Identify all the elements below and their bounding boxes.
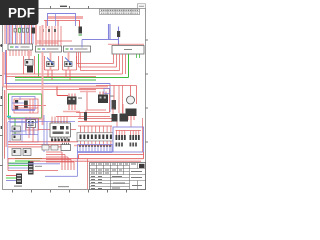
wire red left margin vertical [4, 90, 6, 159]
module m4 [12, 134, 21, 140]
small boxes above fan [42, 145, 49, 150]
wire red right edge vertical [142, 118, 144, 152]
sheet border [3, 9, 146, 190]
text mark bottom center [58, 186, 69, 187]
wire green bus [15, 54, 129, 78]
wire red long bottom [8, 158, 144, 160]
border zone ticks bottom [13, 190, 127, 193]
terminal strip XT1 [77, 133, 113, 142]
ECU box outline blue [12, 97, 35, 110]
wire blue into X4 [6, 180, 16, 182]
fuse F1 [18, 28, 20, 32]
module m3 [12, 126, 21, 132]
border zone ticks right [146, 40, 149, 142]
red stubs to groups [116, 131, 138, 136]
wire red fan verticals [62, 152, 74, 170]
control unit A4 [112, 46, 144, 55]
wire cyan mark [7, 116, 11, 118]
wire red drops [119, 86, 123, 114]
connector X6 mid [84, 112, 87, 121]
relay K1 label [78, 98, 82, 99]
module m2 [15, 106, 18, 110]
wire harness red/blue verticals [5, 25, 32, 44]
terminal box T1 [12, 149, 21, 156]
wire pink left margin vertical [5, 90, 7, 147]
module outline red [26, 118, 39, 130]
XT1 red stubs below [81, 141, 111, 146]
pdf badge [0, 0, 39, 25]
wire green vertical left [38, 54, 40, 78]
blue pin row tips [80, 145, 110, 147]
control unit A1 [8, 44, 33, 50]
connector group G2 pins [130, 135, 132, 140]
wire red fan bus 4 [4, 52, 123, 74]
border zone ticks top [51, 6, 89, 9]
svg-text:PDF: PDF [8, 6, 35, 21]
wire blue bus to right unit [82, 24, 119, 45]
sensor B1 [112, 100, 117, 110]
wire blue under row [78, 151, 113, 153]
wire red fan bus 1 [77, 52, 114, 64]
zone letter marks [1, 44, 2, 47]
connector X3 label [35, 166, 42, 167]
wire red fan bus 5 [6, 54, 126, 77]
wire red header inside box [116, 130, 142, 132]
wire blue vertical [44, 115, 47, 152]
wire blue below cluster [8, 121, 75, 123]
wire green bus 2 [15, 79, 96, 81]
wire red right of stack [34, 170, 59, 172]
wire red bus low [7, 50, 97, 90]
fuse F2 [22, 28, 24, 32]
connector box outline blue [113, 127, 144, 152]
wire red top feed [44, 20, 80, 22]
wire harness blue verticals [7, 25, 34, 44]
wire red into X4 [6, 175, 16, 177]
module outline blue [10, 119, 38, 143]
wire red hor above stubs [78, 125, 112, 127]
wire red loop bottom [79, 152, 144, 159]
connector X5 [24, 101, 28, 109]
switch S2 arrow [65, 58, 72, 65]
pins second row [116, 143, 118, 147]
page background [0, 0, 149, 198]
connector stack X3 [28, 162, 34, 175]
wire red feeds above strip [78, 110, 112, 122]
connector stack X4 [16, 174, 22, 185]
wire blue left margin vertical [7, 122, 9, 164]
pump unit [126, 109, 137, 117]
wire red loop K2 [76, 89, 110, 113]
border zone ticks left [0, 46, 3, 166]
control unit A3 [64, 46, 91, 52]
wire red long bottom 2 [30, 160, 141, 162]
switch S2 [65, 62, 73, 67]
wire red inner [29, 127, 33, 142]
wire red mid link [38, 129, 76, 131]
wire red feed [96, 86, 137, 105]
ECU box outline red [14, 99, 38, 113]
wire red horizontal junction [37, 41, 72, 43]
switch S3 left [24, 56, 35, 74]
motor M1 [127, 96, 135, 104]
switch S1 [47, 62, 55, 67]
component D1 [112, 114, 118, 122]
wire red drop left [45, 21, 47, 29]
wire pink lower [8, 146, 62, 148]
wire pink vertical band right of cluster [42, 52, 44, 125]
wire red under A4 [108, 43, 144, 45]
wire blue bus [5, 50, 111, 112]
wire green stubs below A4 [137, 54, 140, 58]
wire green bright pair [15, 158, 42, 160]
wire pink bus [3, 52, 108, 87]
relay K2 label [110, 96, 114, 97]
XT1 pins [80, 135, 82, 140]
title block logo [139, 164, 145, 168]
blue pin row [80, 147, 110, 153]
wire red feeds [113, 104, 131, 127]
relay K2 [98, 95, 108, 104]
wire green into X3 [8, 163, 28, 166]
control unit A2 [36, 46, 62, 52]
top note text [60, 6, 67, 7]
wire red fan bus 2 [79, 52, 117, 67]
wire green into X4 [6, 177, 16, 179]
wire pink S2 [68, 52, 70, 70]
fuse F4 [14, 29, 16, 33]
node label box blue [104, 89, 110, 94]
wire red stubs below A1 [10, 50, 31, 56]
wire pink k2 [80, 91, 96, 93]
component D2 [120, 114, 129, 122]
wire pink thick verticals [36, 25, 43, 46]
wire red verticals above A2 [40, 26, 61, 46]
wire blue stub [55, 14, 57, 27]
label text mark [14, 186, 22, 187]
fuse glyphs above A2 [42, 29, 44, 32]
wire green vertical [14, 119, 16, 141]
wire red stubs above U2 [52, 117, 67, 124]
wire red to relay K1 [57, 87, 68, 96]
wire red into X3 [8, 158, 28, 171]
wire harness violet verticals [10, 25, 30, 44]
wire blue drop at bus left end [81, 40, 83, 48]
wire red drop right [79, 21, 81, 29]
wire pink below strip [74, 145, 112, 147]
ECU enclosure green outline [9, 94, 42, 118]
wire red inner cross [14, 99, 46, 113]
wire blue into X3 [8, 167, 28, 169]
wire red loop S2 [63, 56, 77, 70]
terminal box T2 [23, 149, 31, 156]
connector X2 under S3 [27, 66, 33, 73]
connector group G1 pins [116, 135, 118, 140]
title block grid [90, 166, 146, 187]
connector row below U2 [51, 139, 53, 142]
wire pink under K1 [63, 111, 80, 113]
wire red drop mid [57, 21, 59, 27]
wire red fan [46, 152, 74, 162]
wire blue bottom long [8, 150, 78, 176]
title block outer [90, 163, 146, 190]
relay K1 [67, 97, 77, 105]
relay K3 [27, 120, 36, 128]
wire blue inner horizontals [10, 117, 38, 142]
wire pink S1 [50, 52, 52, 70]
wire red bus lower [8, 142, 78, 145]
node box blue top [48, 14, 76, 27]
ECU U2 [50, 123, 71, 137]
XT1 red stubs [81, 126, 111, 133]
small corner box top right [138, 4, 146, 9]
wire red risers from switches [48, 70, 70, 80]
module m1 [15, 100, 18, 104]
wire blue inner [12, 97, 35, 111]
fuse F5 relay top [79, 27, 83, 34]
fuse F3 [26, 28, 28, 32]
switch S1 arrow [47, 58, 54, 65]
revision strip top right [100, 9, 140, 15]
wire red mid horizontal [56, 116, 110, 118]
wire red fan bus 3 [81, 52, 120, 71]
wire pink below cluster [8, 118, 44, 120]
wire red title block edge [87, 159, 89, 189]
fuse F6 [117, 31, 120, 37]
blue pin row enclosure [78, 145, 113, 153]
wire pink power band top [47, 16, 83, 19]
title block text marks [91, 164, 142, 189]
connector X1 [32, 28, 36, 34]
wire red loop S1 [45, 56, 59, 70]
